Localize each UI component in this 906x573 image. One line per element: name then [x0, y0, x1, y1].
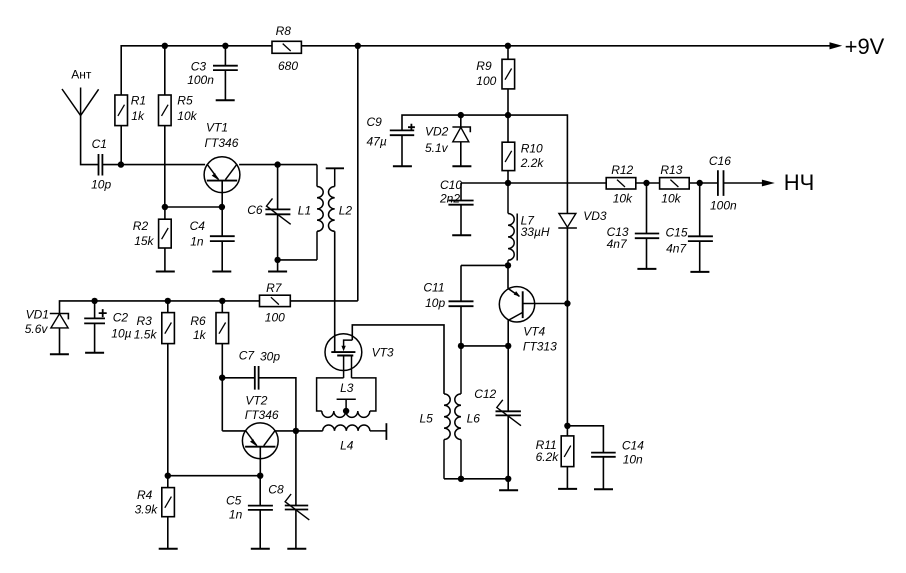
- ground bar C14: [594, 488, 613, 490]
- svg-text:L1: L1: [298, 204, 311, 218]
- svg-text:VD1: VD1: [26, 308, 49, 322]
- svg-text:1k: 1k: [131, 109, 145, 123]
- capacitor C7: [255, 366, 259, 390]
- wire R10 bottom lead: [507, 171, 509, 183]
- svg-text:+9V: +9V: [845, 34, 885, 59]
- svg-text:R13: R13: [660, 163, 682, 177]
- svg-text:100: 100: [476, 74, 496, 88]
- variable capacitor C8: [295, 431, 297, 506]
- capacitor C4: [210, 236, 235, 241]
- wire R3 top lead: [167, 301, 169, 313]
- node collector-C8-L4: [293, 428, 299, 434]
- wire VT1 emitter row: [121, 164, 205, 166]
- svg-text:C11: C11: [423, 281, 444, 295]
- wire VT2 emitter: [222, 430, 245, 432]
- node rail-R9: [505, 43, 511, 49]
- svg-text:1k: 1k: [193, 328, 207, 342]
- wire R2 top lead: [164, 207, 166, 219]
- ground bar C6: [268, 271, 287, 273]
- wire C9-VD2 supply row: [402, 115, 567, 213]
- svg-text:Ант: Ант: [71, 68, 92, 82]
- wire R5 bottom lead: [164, 126, 166, 207]
- node rail-R7drop: [355, 43, 361, 49]
- wire C4 bottom lead: [221, 241, 223, 271]
- svg-text:C3: C3: [191, 59, 207, 73]
- svg-text:5.1v: 5.1v: [425, 141, 449, 155]
- svg-text:47µ: 47µ: [367, 135, 387, 149]
- wire tank bottom row: [444, 478, 508, 480]
- svg-text:C5: C5: [226, 494, 242, 508]
- wire R3 to R4 node: [167, 344, 169, 476]
- inductor L7: [507, 183, 509, 214]
- svg-text:R1: R1: [131, 93, 146, 107]
- fet VT3: [325, 334, 362, 371]
- svg-text:R12: R12: [611, 163, 633, 177]
- ground bar C4: [212, 271, 231, 273]
- svg-text:10µ: 10µ: [111, 326, 131, 340]
- capacitor C3: [213, 66, 238, 70]
- inductor L4 end terminal bar: [385, 423, 387, 440]
- capacitor C2: [84, 318, 105, 323]
- resistor R4: [162, 488, 175, 517]
- ground bar R4: [159, 548, 178, 550]
- antenna Ант symbol: [62, 88, 99, 116]
- resistor R6: [216, 313, 229, 344]
- svg-text:5.6v: 5.6v: [25, 322, 49, 336]
- node row-C2: [91, 298, 97, 304]
- node L3 tap: [343, 408, 349, 414]
- node R13-C15: [697, 180, 703, 186]
- svg-text:R2: R2: [133, 219, 149, 233]
- wire C2 top lead: [94, 301, 96, 318]
- zener diode VD1: [50, 314, 69, 320]
- wire R1 to emitter node: [120, 126, 122, 165]
- wire base row bottom: [168, 475, 260, 477]
- ground bar C13: [637, 268, 656, 270]
- wire R6 to VT2 emitter: [221, 344, 223, 431]
- svg-text:10k: 10k: [661, 191, 681, 205]
- inductor L4: [323, 425, 370, 431]
- svg-text:R4: R4: [137, 488, 153, 502]
- node R12-C13: [643, 180, 649, 186]
- node R6-C7: [219, 375, 225, 381]
- wire C11 row: [461, 345, 508, 347]
- svg-text:ГТ313: ГТ313: [523, 340, 557, 354]
- inductor L5: [444, 394, 450, 440]
- wire R10 top lead: [507, 115, 509, 142]
- capacitor C14: [567, 426, 603, 453]
- wire R9 top lead: [507, 46, 509, 60]
- wire C4 top lead: [221, 207, 223, 236]
- capacitor C9: [390, 130, 414, 135]
- svg-text:10p: 10p: [425, 296, 445, 310]
- svg-text:6.2k: 6.2k: [536, 450, 560, 464]
- resistor R11: [561, 436, 574, 467]
- node rail-R5: [162, 43, 168, 49]
- svg-text:C15: C15: [666, 225, 688, 239]
- wire VT1 collector to L1: [239, 164, 317, 166]
- node C6-L1: [274, 257, 280, 263]
- variable capacitor C12: [496, 411, 521, 415]
- resistor R13: [660, 178, 690, 189]
- node R10-НЧrow: [505, 180, 511, 186]
- wire zener supply row: [60, 301, 260, 314]
- svg-text:100n: 100n: [710, 198, 737, 212]
- inductor L2 top terminal bar: [326, 167, 344, 169]
- svg-text:VT1: VT1: [206, 121, 228, 135]
- wire VD3 to R11: [566, 228, 568, 436]
- wire C3 top lead: [224, 46, 226, 66]
- svg-text:10p: 10p: [91, 177, 111, 191]
- wire R4 top lead: [167, 476, 169, 488]
- wire R9 bottom lead: [507, 89, 509, 115]
- inductor L2: [334, 168, 336, 186]
- node row-R6: [219, 298, 225, 304]
- wire C16 to НЧ arrow: [724, 182, 763, 184]
- svg-text:1n: 1n: [229, 508, 243, 522]
- svg-text:L5: L5: [420, 412, 434, 426]
- transistor VT1: [204, 157, 240, 193]
- svg-text:R6: R6: [190, 314, 206, 328]
- ground bar C5: [251, 548, 270, 550]
- wire C7 left lead: [222, 377, 255, 379]
- node collector-C6: [274, 161, 280, 167]
- power +9V arrow terminal: [830, 42, 843, 49]
- zener diode VD2: [460, 115, 462, 127]
- node R9-R10: [505, 112, 511, 118]
- resistor R8: [272, 41, 301, 53]
- svg-text:33µH: 33µH: [521, 225, 550, 239]
- inductor L3 center tap: [337, 399, 356, 411]
- svg-text:2.2k: 2.2k: [520, 156, 545, 170]
- svg-text:L4: L4: [340, 439, 354, 453]
- ground bar C3: [216, 99, 235, 101]
- svg-text:2n2: 2n2: [439, 191, 460, 205]
- svg-text:C4: C4: [190, 219, 206, 233]
- capacitor C10: [460, 183, 462, 200]
- svg-text:VT3: VT3: [372, 346, 394, 360]
- svg-text:10k: 10k: [177, 109, 197, 123]
- svg-text:НЧ: НЧ: [784, 170, 815, 195]
- node row-VD2: [458, 112, 464, 118]
- svg-text:C2: C2: [113, 311, 129, 325]
- node C11-L6: [458, 343, 464, 349]
- wire C6 ground stub: [277, 260, 279, 272]
- svg-text:C7: C7: [239, 349, 256, 363]
- svg-text:L3: L3: [340, 381, 354, 395]
- node L6-bottom: [458, 476, 464, 482]
- ground bar tank: [499, 489, 518, 491]
- node L7-VT4emitter: [505, 262, 511, 268]
- svg-text:4n7: 4n7: [607, 237, 628, 251]
- wire L7-VT4-C11 row: [461, 264, 508, 266]
- svg-text:ГТ346: ГТ346: [245, 408, 279, 422]
- wire L2 to VT3 gate: [334, 231, 336, 352]
- svg-text:L6: L6: [467, 412, 481, 426]
- wire tank ground stub: [507, 479, 509, 491]
- ground bar R11: [558, 488, 577, 490]
- transistor VT2: [242, 423, 278, 459]
- ground bar C9: [393, 165, 412, 167]
- wire R6 top lead: [221, 301, 223, 313]
- svg-text:R7: R7: [266, 281, 283, 295]
- wire +9V top rail with drop to R1: [121, 46, 272, 95]
- wire R12-R13 link: [636, 182, 660, 184]
- svg-text:10k: 10k: [613, 191, 633, 205]
- wire VT3 drain to L5: [352, 325, 444, 394]
- node C12-bottom: [505, 476, 511, 482]
- wire VT1 base row: [165, 206, 222, 208]
- svg-text:1n: 1n: [190, 235, 204, 249]
- wire C2 bottom lead: [94, 323, 96, 352]
- svg-text:C9: C9: [367, 115, 383, 129]
- svg-text:VT2: VT2: [245, 393, 267, 407]
- output НЧ arrow terminal: [762, 180, 775, 187]
- resistor R12: [606, 178, 636, 189]
- svg-text:R3: R3: [137, 314, 153, 328]
- svg-text:15k: 15k: [134, 234, 154, 248]
- svg-text:VT4: VT4: [523, 325, 545, 339]
- capacitor C16: [718, 170, 724, 196]
- ground bar VD1: [50, 353, 69, 355]
- svg-text:4n7: 4n7: [666, 241, 687, 255]
- svg-text:680: 680: [278, 59, 298, 73]
- svg-text:10n: 10n: [623, 453, 643, 467]
- wire НЧ row left: [461, 182, 606, 184]
- wire +9V top rail right of R8: [301, 45, 829, 47]
- capacitor C5: [259, 476, 261, 506]
- node VT2base-C5: [257, 473, 263, 479]
- resistor R3: [162, 313, 175, 344]
- svg-text:VD3: VD3: [583, 209, 607, 223]
- capacitor C11: [460, 265, 462, 301]
- svg-text:1.5k: 1.5k: [134, 327, 158, 341]
- node R3-R4: [165, 473, 171, 479]
- svg-text:C10: C10: [440, 178, 462, 192]
- capacitor C1: [99, 154, 103, 176]
- wire C7 right lead to collector: [259, 378, 296, 431]
- wire C3 bottom lead: [224, 70, 226, 100]
- wire C12 bottom lead: [507, 415, 509, 478]
- svg-text:3.9k: 3.9k: [135, 502, 159, 516]
- resistor R9: [502, 59, 515, 89]
- node C1-R1-emitter: [118, 161, 124, 167]
- capacitor C15: [699, 183, 701, 236]
- wire R5 top lead: [164, 46, 166, 95]
- wire L1 bottom to C6: [278, 259, 317, 261]
- wire R13-C16 link: [689, 182, 718, 184]
- wire C1 to node: [103, 164, 121, 166]
- capacitor C13: [646, 183, 648, 233]
- svg-text:C16: C16: [709, 154, 731, 168]
- ground bar C15: [690, 271, 709, 273]
- wire VT2 collector to L4: [275, 430, 323, 432]
- ground bar C2: [85, 352, 104, 354]
- node VD3-VT4base: [564, 300, 570, 306]
- svg-text:100n: 100n: [187, 73, 214, 87]
- resistor R2: [159, 219, 172, 248]
- svg-text:R9: R9: [476, 59, 492, 73]
- inductor L3: [317, 378, 344, 411]
- wire C6 bottom lead: [277, 214, 279, 260]
- ground bar VD2: [452, 165, 471, 167]
- node C11-collector: [505, 343, 511, 349]
- inductor L1: [316, 165, 318, 187]
- ground bar C8: [287, 548, 306, 550]
- node R11-C14: [564, 423, 570, 429]
- svg-text:30p: 30p: [260, 349, 280, 363]
- wire VT4 collector to C12: [507, 320, 509, 411]
- svg-text:C1: C1: [92, 137, 107, 151]
- node row-R3: [165, 298, 171, 304]
- wire R7 row right: [290, 300, 357, 302]
- inductor L6: [460, 346, 462, 394]
- wire rail to R7 row: [357, 46, 359, 301]
- resistor R1: [115, 95, 128, 126]
- svg-text:C12: C12: [474, 387, 496, 401]
- wire R4 bottom lead: [167, 517, 169, 549]
- resistor R5: [159, 95, 172, 126]
- resistor R7: [260, 295, 291, 306]
- svg-text:C6: C6: [247, 203, 263, 217]
- svg-text:R10: R10: [521, 142, 543, 156]
- ground bar R2: [156, 271, 175, 273]
- capacitor C9 polarity plus: [408, 124, 415, 131]
- variable capacitor C6: [265, 209, 290, 214]
- diode VD3: [559, 214, 576, 228]
- transistor VT4: [507, 265, 509, 288]
- wire R2 bottom lead: [164, 248, 166, 272]
- wire antenna to C1: [81, 116, 99, 165]
- svg-text:100: 100: [265, 311, 285, 325]
- node rail-C3: [222, 43, 228, 49]
- svg-text:ГТ346: ГТ346: [205, 136, 239, 150]
- node base-C4: [219, 204, 225, 210]
- svg-text:L2: L2: [339, 204, 353, 218]
- capacitor C2 polarity plus: [99, 309, 107, 317]
- svg-text:VD2: VD2: [425, 124, 449, 138]
- wire R11 bottom lead: [566, 467, 568, 489]
- svg-text:R8: R8: [276, 24, 292, 38]
- ground bar C10: [452, 234, 471, 236]
- resistor R10: [502, 142, 515, 170]
- svg-text:R5: R5: [177, 93, 193, 107]
- svg-text:C8: C8: [268, 483, 284, 497]
- svg-text:C14: C14: [622, 439, 644, 453]
- wire C6 top lead: [277, 165, 279, 210]
- node R5-R2: [162, 204, 168, 210]
